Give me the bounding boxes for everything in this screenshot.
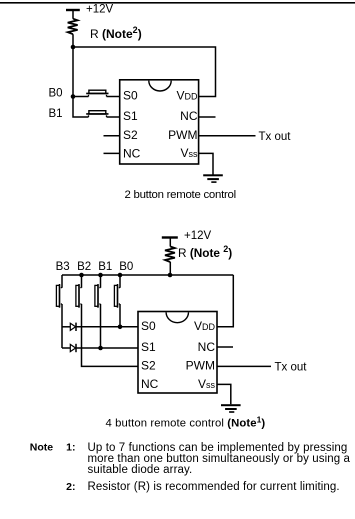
- svg-text:VDD: VDD: [194, 319, 216, 333]
- svg-text:NC: NC: [198, 340, 216, 354]
- svg-text:Resistor (R) is recommended fo: Resistor (R) is recommended for current …: [88, 481, 340, 493]
- svg-text:B1: B1: [49, 108, 63, 120]
- svg-text:Up to 7 functions can be imple: Up to 7 functions can be implemented by …: [88, 442, 348, 454]
- IC U1 (2-button encoder): [120, 80, 199, 164]
- resistor R (bottom circuit): [165, 247, 175, 263]
- wire: node A across top to VDD pin: [73, 47, 216, 97]
- svg-text:suitable diode array.: suitable diode array.: [88, 464, 193, 476]
- svg-text:VDD: VDD: [176, 89, 198, 103]
- NC right stub wire (bottom circuit): [217, 346, 233, 348]
- svg-text:R (Note 2): R (Note 2): [178, 244, 232, 260]
- svg-text:R (Note2): R (Note2): [90, 25, 142, 41]
- wire: B0 switch down to S0 row: [119, 304, 121, 327]
- svg-text:NC: NC: [180, 109, 198, 123]
- pushbutton switch B1: [86, 111, 108, 117]
- PWM output wire (bottom circuit): [217, 365, 271, 367]
- svg-text:2:: 2:: [66, 481, 75, 493]
- svg-text:B0: B0: [119, 261, 133, 273]
- svg-text:4 button remote control (Note1: 4 button remote control (Note1): [106, 414, 266, 429]
- diode D1 (S0 row): [62, 323, 76, 331]
- wire: node B down and right to B1 row: [73, 97, 89, 118]
- svg-text:Tx out: Tx out: [275, 362, 308, 374]
- svg-text:B3: B3: [56, 261, 70, 273]
- wire: resistor to node C: [169, 262, 171, 275]
- wire: B3 switch down to diode branch: [61, 304, 63, 348]
- Vss wire to ground (top circuit): [199, 153, 213, 174]
- svg-text:S0: S0: [123, 89, 138, 103]
- pushbutton switch B2 (vertical): [76, 275, 82, 308]
- +12V supply bar (top circuit): [66, 9, 80, 19]
- node C junction dot (bottom rail): [168, 273, 173, 278]
- svg-text:PWM: PWM: [186, 359, 215, 373]
- wire: B2 switch down to S2 row: [82, 304, 139, 366]
- svg-text:S2: S2: [123, 128, 138, 142]
- wire: rail down to VDD (bottom circuit): [217, 275, 233, 327]
- wire: node B to switch B0: [73, 96, 89, 98]
- pushbutton switch B1 (vertical): [95, 275, 101, 308]
- svg-text:+12V: +12V: [184, 230, 212, 242]
- svg-text:S1: S1: [123, 109, 138, 123]
- svg-text:Vss: Vss: [198, 377, 216, 391]
- wire: resistor to node A: [72, 34, 74, 47]
- node dot B0/S0: [118, 325, 123, 330]
- ground symbol (bottom circuit): [221, 404, 241, 413]
- pushbutton switch B0 (vertical): [114, 275, 120, 308]
- node dot rail/B1: [98, 273, 103, 278]
- wire: diode D2 to S1 pin: [76, 347, 138, 349]
- bottom rail wire: [62, 274, 233, 276]
- wire: node A down to B0 row: [72, 47, 74, 97]
- wire: switch B0 to S0 pin: [107, 96, 120, 98]
- wire: B1 switch down to S1 row: [100, 304, 102, 348]
- svg-text:1:: 1:: [66, 442, 75, 454]
- svg-text:S1: S1: [141, 340, 156, 354]
- node dot rail/B0: [118, 273, 123, 278]
- NC left stub wire (top circuit): [104, 152, 120, 154]
- +12V supply bar (bottom circuit): [162, 236, 178, 246]
- node dot rail/B2: [79, 273, 84, 278]
- svg-text:Vss: Vss: [180, 146, 198, 160]
- diode D2 (S1 row): [62, 344, 76, 352]
- wire: switch B1 to S1 pin: [107, 116, 120, 118]
- svg-text:2 button remote control: 2 button remote control: [125, 189, 236, 201]
- svg-text:S0: S0: [141, 319, 156, 333]
- svg-text:more than one button simultane: more than one button simultaneously or b…: [88, 453, 351, 465]
- wire: diode D1 to S0 pin: [76, 326, 138, 328]
- pushbutton switch B3 (vertical): [56, 275, 62, 308]
- svg-text:Note: Note: [30, 442, 53, 454]
- node B junction dot (B0 row): [71, 94, 76, 99]
- Vss wire to ground (bottom circuit): [217, 384, 231, 404]
- top border rule: [0, 2, 355, 4]
- svg-text:B1: B1: [98, 261, 112, 273]
- svg-text:+12V: +12V: [86, 3, 114, 15]
- svg-text:Tx out: Tx out: [259, 131, 292, 143]
- pushbutton switch B0: [86, 90, 108, 96]
- svg-text:B0: B0: [49, 87, 63, 99]
- node dot B1/S1: [98, 346, 103, 351]
- PWM output wire (top circuit): [199, 135, 256, 137]
- svg-text:S2: S2: [141, 359, 156, 373]
- IC U2 (4-button encoder): [138, 312, 217, 394]
- resistor R (top circuit): [68, 19, 78, 35]
- S2 stub wire (top circuit): [104, 135, 120, 137]
- svg-text:NC: NC: [141, 377, 159, 391]
- ground symbol (top circuit): [203, 174, 223, 183]
- svg-text:NC: NC: [123, 147, 141, 161]
- svg-text:B2: B2: [77, 261, 91, 273]
- node A junction dot (below resistor, top circuit): [71, 45, 76, 50]
- NC right stub wire (top circuit): [199, 116, 216, 118]
- svg-text:PWM: PWM: [168, 128, 197, 142]
